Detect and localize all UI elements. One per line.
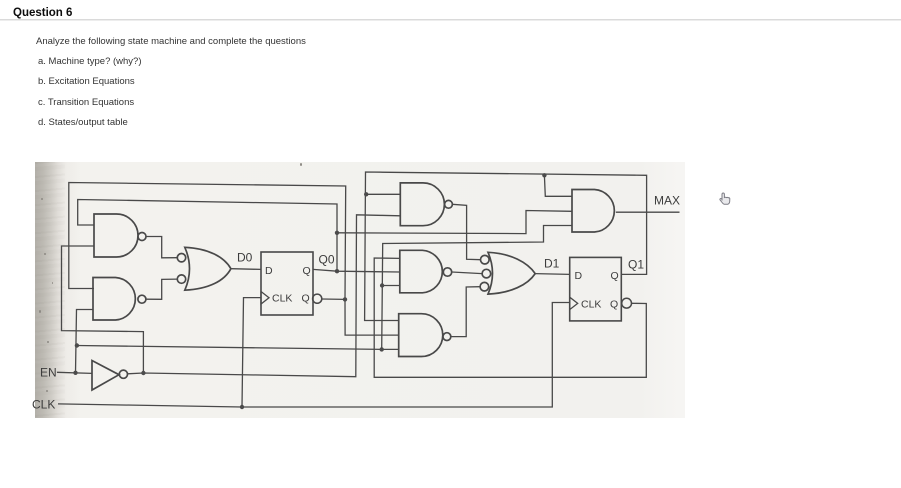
inverter U3 (EN) [92, 361, 128, 391]
wire Q0bar to NAND3 input2 [345, 299, 399, 335]
svg-text:Q: Q [610, 299, 618, 311]
svg-text:EN: EN [40, 366, 57, 380]
nand gate G6 (Q1, Q0bar, EN) [399, 314, 451, 357]
mouse cursor [720, 193, 730, 204]
node EN at NAND2 [380, 283, 384, 287]
and gate G8 (MAX) [572, 190, 614, 233]
node EN input junction [73, 371, 77, 375]
node EN' junction [141, 371, 145, 375]
wire G2 output to OR input2 [146, 279, 177, 299]
scanned circuit area [35, 162, 685, 418]
wire G1 output to OR input1 [146, 237, 177, 258]
wire EN distribution (y=346) to NAND3 input3 [77, 346, 399, 350]
nand gate G5 (Q1bar, Q0, EN) [400, 250, 452, 292]
node EN at NAND3 [380, 347, 384, 351]
svg-text:D: D [575, 270, 583, 282]
node Q0 line junction [335, 269, 339, 273]
svg-text:Q1: Q1 [628, 257, 644, 271]
svg-text:CLK: CLK [32, 398, 55, 412]
wire EN up to G2 input2 [76, 310, 94, 373]
node CLK junction [240, 405, 244, 409]
svg-text:CLK: CLK [272, 293, 292, 305]
wire CLK main [58, 303, 570, 408]
wire Q0bar from FF0 [322, 298, 345, 300]
svg-text:Q: Q [302, 293, 310, 305]
svg-text:Q: Q [303, 265, 311, 277]
wire EN' to G1 input2 via y331 [62, 246, 144, 373]
svg-text:D0: D0 [237, 251, 253, 265]
svg-text:D: D [265, 265, 273, 277]
wire Q1 to NAND1 input1 [366, 193, 400, 195]
svg-text:Q0: Q0 [319, 253, 335, 267]
wire EN vertical to NAND2 input3 and MAX input3 [382, 226, 572, 350]
wire Q0bar feedback outer (y=183) [69, 183, 346, 300]
wire EN' from inverter to NAND1 input2 [128, 215, 401, 377]
svg-text:MAX: MAX [654, 194, 680, 208]
svg-text:Q: Q [611, 270, 619, 282]
node Q0bar junction [343, 297, 347, 301]
wire CLK to FF0 [242, 298, 261, 407]
wire D0 [231, 268, 261, 271]
nand gate G4 (Q1, EN') [400, 183, 452, 226]
node Q1 at NAND1 [364, 192, 368, 196]
wire NAND1 output to OR2 input1 [452, 204, 480, 259]
wire D1 [535, 273, 570, 276]
svg-text:CLK: CLK [581, 299, 601, 311]
wire Q0 feedback top-left (y=200) [78, 200, 337, 272]
wire Q1bar feedback bottom to NAND2 input1 [374, 258, 646, 377]
node Q0 tap on y233 wire [335, 231, 339, 235]
pin labels FF0 [265, 265, 311, 305]
svg-text:D1: D1 [544, 257, 560, 271]
flip-flop U1 (D0/Q0) [261, 252, 322, 315]
node EN distribution tap [75, 343, 79, 347]
nand gate G2 (Q0bar, EN) [93, 278, 146, 321]
wire MAX output [616, 211, 680, 213]
node Q1 at MAX [542, 173, 546, 177]
wire NAND3 output to OR2 input3 [451, 287, 480, 337]
wire Q1 net top (y=174) [365, 172, 647, 321]
flip-flop U2 (D1/Q1) [570, 257, 632, 321]
wire EN input segment [57, 372, 92, 373]
or gate G7 (D1) with inverted inputs [480, 252, 535, 294]
wire Q0 to MAX input2 (y=233) [337, 211, 572, 234]
wire NAND2 output to OR2 input2 [452, 272, 482, 274]
wire Q1 to MAX input1 [544, 175, 572, 196]
nand gate G1 (Q0, EN') [94, 214, 146, 257]
or gate G3 (D0) with inverted inputs [177, 247, 231, 290]
pin labels FF1 [575, 270, 619, 311]
wire Q0 output line [313, 269, 400, 272]
